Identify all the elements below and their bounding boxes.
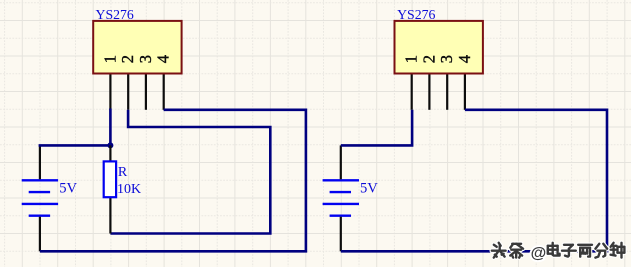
svg-text:3: 3	[136, 55, 155, 63]
svg-text:2: 2	[118, 55, 137, 63]
svg-text:3: 3	[437, 55, 456, 63]
svg-text:YS276: YS276	[397, 7, 435, 22]
svg-text:@: @	[531, 245, 547, 262]
svg-text:4: 4	[154, 55, 173, 63]
svg-text:2: 2	[419, 55, 438, 63]
svg-text:10K: 10K	[117, 182, 141, 197]
svg-text:1: 1	[100, 55, 119, 63]
svg-text:4: 4	[455, 55, 474, 63]
svg-text:5V: 5V	[59, 180, 77, 196]
svg-text:1: 1	[402, 55, 421, 63]
svg-text:YS276: YS276	[96, 7, 134, 22]
svg-text:R: R	[118, 165, 128, 180]
svg-text:5V: 5V	[360, 180, 378, 196]
